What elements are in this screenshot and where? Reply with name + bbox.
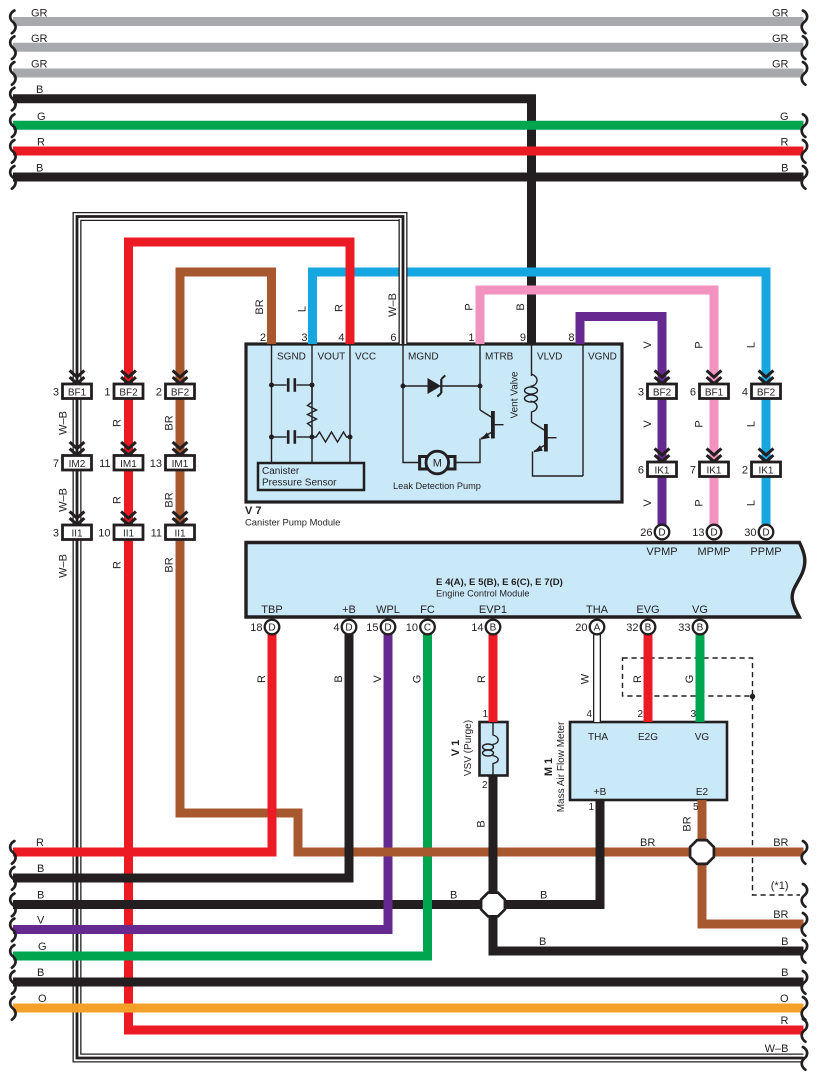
arrow into BF1 (W-B col)	[70, 371, 85, 384]
ECM pin 15 D WPL	[381, 620, 396, 635]
connector 2 IK1	[742, 462, 781, 477]
svg-text:P: P	[694, 420, 706, 427]
wire break squiggle right star1 row	[802, 884, 807, 907]
wire GR top row 1	[13, 17, 804, 26]
svg-text:26: 26	[640, 527, 652, 539]
svg-text:MGND: MGND	[408, 352, 439, 363]
connector 10 II1	[98, 525, 143, 540]
svg-text:10: 10	[98, 528, 110, 540]
wire break squiggle right B row7	[802, 166, 807, 189]
svg-text:13: 13	[692, 527, 704, 539]
motor M leak detection pump	[420, 451, 455, 474]
svg-text:G: G	[780, 111, 789, 123]
svg-text:VPMP: VPMP	[646, 546, 677, 558]
wire break squiggle left O bottom	[10, 997, 15, 1020]
wire R top row 6	[13, 147, 804, 156]
svg-text:2: 2	[742, 465, 748, 477]
svg-text:R: R	[334, 304, 346, 312]
wire break squiggle right BR row2	[802, 913, 807, 936]
svg-text:R: R	[632, 675, 644, 683]
resistor R2 horizontal in pressure sensor	[312, 432, 350, 442]
svg-text:V: V	[642, 420, 654, 428]
svg-text:THA: THA	[586, 604, 609, 616]
svg-text:Vent Valve: Vent Valve	[510, 371, 521, 419]
svg-text:Canister: Canister	[262, 466, 300, 477]
svg-text:SGND: SGND	[277, 352, 306, 363]
node VOUT-C1	[310, 383, 315, 388]
wire W from ECM THA pin 20 to MAF THA pin 4	[593, 634, 601, 722]
wire B from MAF +B pin 1 down to row corner	[596, 800, 605, 909]
SGND internal conductor	[271, 344, 273, 463]
svg-text:BR: BR	[164, 492, 176, 507]
svg-text:R: R	[36, 837, 44, 849]
connector 3 BF1	[53, 384, 92, 399]
svg-text:B: B	[697, 623, 704, 634]
svg-text:1: 1	[588, 802, 594, 813]
VOUT internal conductor	[311, 344, 313, 463]
svg-text:BR: BR	[640, 837, 655, 849]
wire break squiggle right GR row1	[802, 11, 807, 34]
svg-text:BR: BR	[773, 909, 788, 921]
svg-text:V: V	[642, 341, 654, 349]
transistor Q2 vent valve driver	[532, 422, 584, 476]
wire break squiggle left G row5	[10, 114, 15, 137]
svg-text:3: 3	[53, 387, 59, 399]
wire break squiggle left R bottom	[10, 841, 15, 864]
svg-text:VLVD: VLVD	[537, 352, 562, 363]
ECM pin 4 D +B	[342, 620, 357, 635]
svg-text:R: R	[37, 137, 45, 149]
capacitor C1 canister pressure sensor	[272, 378, 313, 392]
svg-text:M 1: M 1	[543, 758, 555, 776]
svg-text:2: 2	[482, 780, 488, 791]
ECM box E4/E5/E6/E7 engine control module (wavy right edge)	[246, 543, 805, 618]
wire break squiggle right BR row	[802, 841, 807, 864]
MAF pin labels	[588, 732, 709, 798]
wire B top row 4 turning down to VLVD pin 9	[13, 99, 532, 344]
wire break squiggle right G row5	[802, 114, 807, 137]
wire B from VSV pin 2 down through junction to right edge	[493, 775, 804, 951]
svg-text:+B: +B	[594, 787, 607, 798]
wire break squiggle right B row	[802, 940, 807, 963]
svg-text:IM2: IM2	[69, 459, 86, 470]
svg-text:L: L	[746, 500, 758, 506]
wire R from ECM TBP pin 18 to left edge	[13, 634, 272, 852]
svg-text:MPMP: MPMP	[698, 546, 731, 558]
wire W-B from MGND pin 6 up/left/down through BF1-IM2-II1 to bottom right	[77, 217, 804, 1059]
svg-text:C: C	[424, 623, 431, 634]
wire GR top row 2	[13, 43, 804, 52]
arrow into II1 (R col)	[121, 512, 136, 525]
ECM pin 26 D VPMP	[655, 525, 670, 540]
svg-text:B: B	[490, 623, 497, 634]
svg-text:Mass Air Flow Meter: Mass Air Flow Meter	[556, 721, 567, 812]
svg-text:EVP1: EVP1	[479, 604, 507, 616]
svg-text:2: 2	[156, 387, 162, 399]
svg-text:D: D	[762, 528, 769, 539]
wire break squiggle left B row4	[10, 88, 15, 111]
wire P from MTRB pin 1 to ECM MPMP via BF1/IK1	[480, 290, 714, 527]
svg-text:GR: GR	[31, 33, 48, 45]
connector 6 BF1 right	[690, 384, 729, 399]
V7 module pin labels	[277, 352, 617, 363]
svg-text:1: 1	[468, 332, 474, 344]
svg-text:15: 15	[366, 622, 378, 634]
svg-text:L: L	[746, 421, 758, 427]
svg-text:B: B	[781, 936, 788, 948]
svg-text:EVG: EVG	[636, 604, 659, 616]
svg-text:W–B: W–B	[58, 554, 70, 578]
svg-text:32: 32	[626, 622, 638, 634]
svg-text:II1: II1	[71, 528, 83, 539]
svg-text:M: M	[433, 458, 442, 470]
V1 VSV purge valve box	[480, 722, 508, 776]
wire G from ECM VG pin 33 to MAF VG pin 3	[696, 634, 705, 722]
svg-text:FC: FC	[420, 604, 435, 616]
connector 13 IM1	[150, 456, 195, 471]
svg-text:2: 2	[637, 709, 643, 720]
svg-text:A: A	[594, 623, 601, 634]
svg-text:V: V	[372, 675, 384, 683]
svg-text:V 7: V 7	[245, 505, 262, 517]
svg-text:B: B	[540, 890, 547, 902]
svg-text:VCC: VCC	[355, 352, 376, 363]
wire break squiggle right O row	[802, 997, 807, 1020]
svg-text:D: D	[710, 528, 717, 539]
connector 1 BF2	[104, 384, 143, 399]
wire break squiggle right GR row2	[802, 36, 807, 59]
svg-text:D: D	[384, 623, 391, 634]
wire R from VCC pin 4 via BF2/IM1/II1 down to bottom right	[129, 242, 804, 1030]
dashed option box at ECM EVG/VG	[623, 658, 753, 696]
svg-text:B: B	[450, 890, 457, 902]
wire break squiggle right GR row3	[802, 62, 807, 85]
MAF pin numbers	[586, 709, 699, 813]
wire GR top row 3	[13, 69, 804, 78]
svg-text:IK1: IK1	[758, 465, 773, 476]
svg-text:B: B	[36, 84, 43, 96]
ECM pin 14 B EVP1	[486, 620, 501, 635]
svg-text:4: 4	[742, 387, 748, 399]
svg-text:30: 30	[744, 527, 756, 539]
arrow into IM2 (W-B col)	[70, 442, 85, 455]
svg-text:B: B	[645, 623, 652, 634]
transistor Q1 leak detection pump driver	[455, 410, 504, 463]
svg-text:VG: VG	[695, 732, 710, 743]
svg-text:B: B	[36, 163, 43, 175]
connector 7 IM2	[53, 456, 92, 471]
svg-text:L: L	[746, 342, 758, 348]
svg-text:B: B	[781, 163, 788, 175]
svg-text:W–B: W–B	[58, 411, 70, 435]
wire break squiggle left B bottom2	[10, 894, 15, 917]
svg-text:11: 11	[151, 528, 162, 540]
svg-text:14: 14	[471, 622, 483, 634]
svg-text:E2G: E2G	[638, 732, 658, 743]
svg-text:4: 4	[338, 332, 344, 344]
svg-text:20: 20	[575, 622, 587, 634]
svg-text:13: 13	[150, 458, 162, 470]
VGND internal conductor	[582, 344, 584, 476]
arrow into IK1 (P col)	[707, 449, 722, 462]
svg-text:V: V	[642, 499, 654, 507]
svg-text:33: 33	[678, 622, 690, 634]
svg-text:GR: GR	[772, 59, 789, 71]
svg-text:3: 3	[638, 387, 644, 399]
svg-text:Pressure Sensor: Pressure Sensor	[262, 478, 337, 489]
connector 3 II1	[53, 525, 92, 540]
wire break squiggle right W-B row	[802, 1047, 807, 1070]
wire break squiggle right B full row	[802, 971, 807, 994]
wire break squiggle left V bottom	[10, 919, 15, 942]
M1 mass air flow meter box	[570, 722, 727, 800]
VLVD internal conductor	[531, 344, 533, 376]
inductor vent valve coil	[525, 374, 538, 422]
ECM pin 13 D MPMP	[707, 525, 722, 540]
svg-text:B: B	[37, 967, 44, 979]
svg-text:R: R	[112, 419, 124, 427]
arrow into BF2 (L col)	[759, 371, 774, 384]
svg-text:P: P	[694, 341, 706, 348]
wire B top row 7	[13, 173, 804, 182]
svg-text:R: R	[781, 1015, 789, 1027]
svg-text:G: G	[412, 675, 424, 684]
MTRB internal conductor	[479, 344, 481, 410]
wire break squiggle left B row7	[10, 166, 15, 189]
connector 11 II1	[151, 525, 195, 540]
svg-text:V: V	[37, 915, 45, 927]
svg-text:D: D	[268, 623, 275, 634]
junction octagon BR wire at MAF E2	[690, 840, 714, 864]
svg-text:BR: BR	[254, 299, 266, 314]
arrow into BF2 (R col)	[121, 371, 136, 384]
svg-text:1: 1	[482, 709, 488, 720]
svg-text:3: 3	[301, 332, 307, 344]
svg-text:O: O	[780, 993, 789, 1005]
wire break squiggle right R row	[802, 1019, 807, 1042]
svg-text:18: 18	[250, 622, 262, 634]
svg-text:4: 4	[333, 622, 339, 634]
svg-text:B: B	[539, 936, 546, 948]
connector 2 BF2	[156, 384, 195, 399]
wire break squiggle left GR row3	[10, 62, 15, 85]
node VOUT-R1-R2	[310, 435, 315, 440]
svg-text:B: B	[37, 890, 44, 902]
svg-text:PPMP: PPMP	[750, 546, 781, 558]
svg-text:II1: II1	[174, 528, 186, 539]
arrow into IM1 (BR col)	[173, 442, 188, 455]
wire R from ECM EVG pin 32 to MAF E2G pin 2	[644, 634, 653, 722]
node SGND-C2	[269, 435, 274, 440]
svg-text:P: P	[464, 303, 476, 310]
wire V from VGND pin 8 to ECM VPMP via BF2/IK1	[580, 317, 662, 528]
svg-text:BF1: BF1	[705, 387, 724, 398]
ECM pin 30 D PPMP	[759, 525, 774, 540]
wire break squiggle left G bottom	[10, 945, 15, 968]
connector 3 BF2 right	[638, 384, 677, 399]
svg-text:BF2: BF2	[757, 387, 776, 398]
svg-text:THA: THA	[588, 732, 608, 743]
svg-text:G: G	[684, 675, 696, 684]
junction dot on dashed branch	[750, 694, 755, 699]
svg-text:GR: GR	[772, 33, 789, 45]
svg-text:G: G	[37, 111, 46, 123]
svg-text:BR: BR	[773, 837, 788, 849]
arrow into BF1 (P col)	[707, 371, 722, 384]
svg-text:W: W	[580, 673, 592, 684]
svg-text:BF1: BF1	[68, 387, 87, 398]
capacitor C2 canister pressure sensor	[272, 430, 313, 444]
svg-text:BF2: BF2	[119, 387, 138, 398]
svg-text:1: 1	[104, 387, 110, 399]
ECM pin 18 D TBP	[265, 620, 280, 635]
wire break squiggle left B bottom3	[10, 971, 15, 994]
svg-text:MTRB: MTRB	[485, 352, 514, 363]
svg-text:B: B	[37, 863, 44, 875]
svg-text:6: 6	[638, 465, 644, 477]
junction octagon B wire at VSV	[481, 893, 505, 917]
svg-text:3: 3	[53, 528, 59, 540]
VSV pin numbers	[482, 709, 489, 791]
wire break squiggle left GR row1	[10, 11, 15, 34]
svg-text:BR: BR	[164, 415, 176, 430]
svg-text:6: 6	[690, 387, 696, 399]
node MGND-zener	[401, 384, 406, 389]
svg-text:R: R	[476, 675, 488, 683]
arrow into IK1 (V col)	[655, 449, 670, 462]
svg-text:10: 10	[406, 622, 418, 634]
wire G from ECM FC pin 10 to left edge	[13, 634, 428, 956]
MGND internal conductor to motor	[403, 344, 419, 463]
svg-text:D: D	[345, 623, 352, 634]
svg-text:BF2: BF2	[171, 387, 190, 398]
svg-text:IK1: IK1	[706, 465, 721, 476]
wire B bottom full row	[13, 978, 804, 987]
svg-text:Leak Detection Pump: Leak Detection Pump	[393, 481, 481, 491]
ECM pin 20 A THA	[590, 620, 605, 635]
svg-text:E 4(A), E 5(B), E 6(C), E 7(D): E 4(A), E 5(B), E 6(C), E 7(D)	[436, 577, 563, 588]
svg-text:IK1: IK1	[654, 465, 669, 476]
node MTRB-zener	[478, 384, 483, 389]
node SGND-C1	[269, 383, 274, 388]
wire break squiggle left B bottom1	[10, 867, 15, 890]
node VCC-R2	[348, 435, 353, 440]
svg-text:TBP: TBP	[261, 604, 282, 616]
wire V from ECM WPL pin 15 to left edge	[13, 634, 388, 930]
svg-text:IM1: IM1	[120, 459, 137, 470]
wire break squiggle right R row6	[802, 140, 807, 163]
svg-text:7: 7	[53, 458, 59, 470]
svg-text:7: 7	[690, 465, 696, 477]
wire G top row 5	[13, 121, 804, 130]
wire break squiggle left GR row2	[10, 36, 15, 59]
wire break squiggle left R row6	[10, 140, 15, 163]
svg-text:R: R	[781, 137, 789, 149]
svg-text:IM1: IM1	[172, 459, 189, 470]
svg-text:B: B	[333, 675, 345, 682]
svg-text:BR: BR	[682, 816, 694, 831]
resistor R1 vertical in pressure sensor	[308, 385, 317, 437]
svg-text:11: 11	[99, 458, 110, 470]
connector 6 IK1	[638, 462, 677, 477]
svg-text:G: G	[38, 941, 47, 953]
svg-text:B: B	[476, 820, 488, 827]
svg-text:Engine Control Module: Engine Control Module	[436, 589, 529, 599]
svg-text:GR: GR	[31, 8, 48, 20]
connector 4 BF2 right	[742, 384, 781, 399]
svg-text:BF2: BF2	[653, 387, 672, 398]
connector 11 IM1	[99, 456, 143, 471]
ECM top pin labels	[646, 546, 781, 558]
svg-text:W–B: W–B	[58, 488, 70, 512]
svg-text:8: 8	[568, 332, 574, 344]
svg-text:3: 3	[690, 709, 696, 720]
svg-text:E2: E2	[696, 787, 709, 798]
svg-text:O: O	[38, 993, 47, 1005]
svg-text:6: 6	[390, 332, 396, 344]
wire W-B MGND vertical segment (crosses over L wire)	[399, 219, 408, 344]
ECM pin 33 B VG	[693, 620, 708, 635]
svg-text:R: R	[256, 675, 268, 683]
wire R from ECM EVP1 pin 14 to VSV pin 1	[489, 634, 498, 722]
zener diode D1	[403, 375, 480, 396]
arrow into IK1 (L col)	[759, 449, 774, 462]
wire BR from MAF E2 pin 5 down through octagon junction to right edge	[702, 800, 804, 924]
svg-text:L: L	[297, 306, 309, 312]
svg-text:VGND: VGND	[588, 352, 617, 363]
VSV coil	[483, 722, 499, 775]
svg-text:BR: BR	[164, 557, 176, 572]
V7 canister pump module box	[246, 344, 622, 502]
wire L from VOUT pin 3 to ECM PPMP via BF2/IK1	[313, 272, 767, 527]
svg-text:WPL: WPL	[376, 604, 400, 616]
svg-text:W–B: W–B	[765, 1043, 789, 1055]
ECM pin 10 C FC	[420, 620, 435, 635]
canister pressure sensor box	[258, 463, 364, 490]
svg-text:Canister Pump Module: Canister Pump Module	[245, 517, 340, 528]
arrow into II1 (W-B col)	[70, 512, 85, 525]
svg-text:B: B	[515, 303, 527, 310]
VCC internal conductor	[349, 344, 351, 463]
wire BR from SGND pin 2 via BF2/IM1/II1 to bottom right edge	[180, 272, 804, 852]
connector 7 IK1	[690, 462, 729, 477]
svg-text:GR: GR	[31, 59, 48, 71]
svg-text:VOUT: VOUT	[318, 352, 346, 363]
arrow into BF2 (V col)	[655, 371, 670, 384]
svg-text:R: R	[112, 561, 124, 569]
svg-text:R: R	[112, 496, 124, 504]
arrow into BF2 (BR col)	[173, 371, 188, 384]
svg-text:5: 5	[693, 802, 699, 813]
arrow into II1 (BR col)	[173, 512, 188, 525]
wire B row from left edge to MAF +B corner	[13, 900, 600, 909]
svg-text:VG: VG	[692, 604, 708, 616]
wire B from ECM +B pin 4 to left edge	[13, 634, 349, 878]
svg-text:B: B	[781, 967, 788, 979]
svg-text:+B: +B	[342, 604, 356, 616]
ECM bottom pin labels	[261, 604, 708, 616]
svg-text:VSV (Purge): VSV (Purge)	[463, 720, 474, 776]
svg-text:(*1): (*1)	[771, 880, 789, 892]
svg-text:V 1: V 1	[450, 740, 462, 757]
svg-text:GR: GR	[772, 8, 789, 20]
svg-text:P: P	[694, 499, 706, 506]
svg-text:9: 9	[520, 332, 526, 344]
svg-text:2: 2	[260, 332, 266, 344]
svg-text:D: D	[658, 528, 665, 539]
dashed (*1) branch wire	[753, 696, 801, 895]
ECM pin 32 B EVG	[641, 620, 656, 635]
